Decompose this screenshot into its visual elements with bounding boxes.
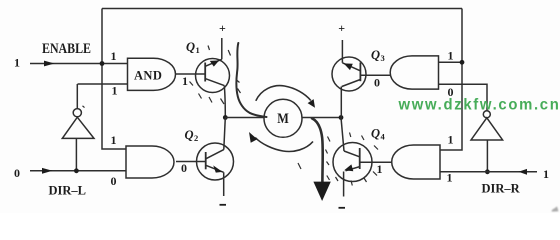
- svg-text:1: 1: [196, 45, 200, 55]
- glow dashes around Q1: [83, 46, 241, 108]
- rotation arc upper: [256, 86, 311, 101]
- wire AND1 output to Q1 base: [176, 73, 206, 75]
- wire AND4 output to Q4 base: [360, 161, 392, 163]
- wire DIR-L input line: [30, 170, 126, 172]
- svg-text:1: 1: [14, 56, 20, 70]
- svg-text:0: 0: [181, 161, 187, 175]
- svg-text:www.dzkfw.com.cn: www.dzkfw.com.cn: [398, 96, 560, 113]
- inverter U2 (DIR-L): [73, 109, 81, 117]
- svg-text:0: 0: [111, 174, 117, 188]
- wire DIR-R input line: [440, 171, 537, 173]
- svg-text:0: 0: [14, 166, 20, 180]
- node DIR-L junction: [74, 168, 79, 173]
- transistor Q2: [197, 143, 234, 196]
- wire AND3 output to Q3 base: [360, 74, 390, 76]
- label minus left: [220, 204, 227, 206]
- svg-text:+: +: [219, 21, 226, 35]
- svg-text:0: 0: [374, 76, 380, 90]
- svg-text:ENABLE: ENABLE: [42, 41, 91, 57]
- svg-text:DIR–R: DIR–R: [482, 181, 521, 195]
- wire inverter U2 input: [75, 138, 77, 170]
- wire inverter U2 output riser: [76, 84, 78, 109]
- wire ENABLE input line: [30, 63, 128, 65]
- svg-text:2: 2: [194, 133, 198, 143]
- svg-text:Q: Q: [185, 128, 194, 142]
- label minus right: [339, 207, 346, 209]
- svg-text:Q: Q: [186, 40, 195, 54]
- wire AND2 output to Q2 base: [176, 161, 206, 163]
- corner smudge: [552, 206, 559, 211]
- arrowhead rotation lower: [249, 132, 257, 143]
- current flow stroke left: [236, 43, 266, 117]
- svg-text:1: 1: [543, 167, 549, 181]
- svg-text:1: 1: [182, 74, 188, 88]
- svg-text:M: M: [277, 111, 289, 127]
- wire AND3 top input: [439, 61, 463, 63]
- transistor Q1: [196, 38, 230, 118]
- svg-text:1: 1: [377, 162, 383, 176]
- wire motor left lead: [225, 117, 264, 119]
- wire Q4 collector riser: [341, 118, 344, 152]
- node left motor terminal: [223, 115, 228, 120]
- svg-text:1: 1: [111, 49, 117, 63]
- svg-text:3: 3: [381, 53, 385, 63]
- node ENABLE junction: [100, 61, 105, 66]
- node right motor terminal: [339, 115, 344, 120]
- arrowhead ENABLE input: [44, 61, 55, 67]
- transistor Q3: [332, 40, 366, 118]
- wire right ENABLE drop to AND4: [440, 62, 462, 150]
- arrowhead DIR-R input: [519, 169, 528, 175]
- wire ENABLE top bus: [102, 8, 462, 10]
- arrowhead rotation upper: [308, 99, 315, 108]
- current flow stroke right: [312, 118, 323, 182]
- wire right ENABLE riser: [461, 9, 463, 63]
- wire AND3 bottom input: [439, 84, 488, 110]
- svg-text:DIR–L: DIR–L: [49, 183, 87, 197]
- svg-text:1: 1: [447, 171, 453, 185]
- svg-text:1: 1: [111, 133, 117, 147]
- motor M1: [264, 99, 302, 137]
- transistor Q4: [333, 143, 372, 197]
- glow dashes around Q4: [298, 133, 378, 186]
- arrowhead DIR-L input: [42, 168, 53, 174]
- AND gate U7: [392, 145, 440, 179]
- arrowhead current flow: [313, 182, 330, 201]
- svg-text:Q: Q: [371, 127, 380, 141]
- svg-text:Q: Q: [371, 48, 380, 62]
- svg-text:4: 4: [381, 132, 386, 142]
- svg-text:AND: AND: [134, 69, 162, 83]
- wire Q2 collector riser: [224, 118, 226, 150]
- svg-text:+: +: [338, 21, 345, 35]
- AND gate U5: [390, 56, 438, 89]
- wire motor right lead: [302, 117, 341, 119]
- wire left ENABLE riser: [101, 9, 103, 64]
- inverter U6 (DIR-R): [483, 111, 490, 118]
- wire inverter U6 input: [486, 140, 488, 172]
- wire AND1 bottom input: [78, 83, 128, 85]
- node DIR-R junction: [485, 169, 490, 174]
- AND gate U3: [126, 146, 174, 178]
- svg-text:1: 1: [112, 84, 118, 98]
- node AND3 enable tap: [460, 60, 465, 65]
- svg-text:1: 1: [448, 133, 454, 147]
- rotation arc lower: [255, 138, 313, 152]
- wire left ENABLE drop to AND2: [102, 64, 126, 150]
- AND gate U1: [128, 58, 176, 90]
- svg-text:1: 1: [448, 49, 454, 63]
